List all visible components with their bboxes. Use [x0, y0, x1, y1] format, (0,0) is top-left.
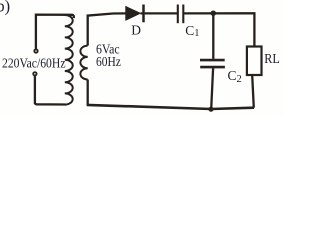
capacitor C2 top plate [200, 59, 225, 62]
svg-text:C2: C2 [228, 68, 242, 85]
wire: left top (terminal up and right to transformer primary) [36, 15, 74, 49]
diode D (cathode bar) [142, 5, 145, 23]
svg-text:220Vac/60Hz: 220Vac/60Hz [2, 57, 66, 72]
terminal: AC input top port circle [34, 49, 37, 52]
wire: RL bottom lead [252, 75, 254, 107]
wire: top rail from C1 to top-right corner and down to RL [184, 13, 255, 46]
wire: top rail from transformer to diode [87, 13, 127, 15]
wire: left bottom (terminal down and right to transformer primary) [35, 76, 66, 104]
wire: diode tip to bar [141, 12, 145, 14]
svg-text:60Hz: 60Hz [96, 54, 121, 69]
transformer T1 primary winding [65, 15, 73, 105]
node: junction dot on top rail [211, 11, 216, 16]
wire: secondary top lead [87, 15, 89, 46]
capacitor C1 left plate [177, 5, 179, 24]
node: junction dot on bottom rail [208, 107, 213, 112]
capacitor C1 right plate [182, 5, 184, 24]
resistor RL box [247, 47, 262, 76]
svg-text:b): b) [0, 0, 10, 15]
svg-text:RL: RL [264, 51, 280, 66]
capacitor C2 bottom plate [200, 66, 225, 69]
wire: top rail from diode to capacitor C1 [145, 12, 178, 14]
wire: secondary bottom lead [87, 80, 89, 106]
wire: bottom rail [87, 105, 254, 109]
svg-text:C1: C1 [185, 23, 199, 39]
wire: C2 branch upper segment [212, 13, 214, 59]
diode D (anode triangle) [125, 6, 141, 21]
wire: C2 branch lower segment [211, 68, 213, 109]
transformer T1 secondary winding [80, 46, 87, 80]
svg-text:D: D [131, 23, 141, 38]
terminal: AC input bottom port circle [33, 72, 36, 75]
